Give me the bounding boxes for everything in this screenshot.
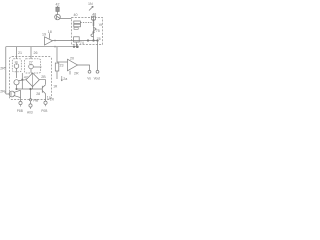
svg-text:A03: A03 [27,111,33,115]
svg-text:18: 18 [48,30,52,34]
svg-text:26: 26 [34,51,38,55]
svg-text:21: 21 [18,51,22,55]
svg-text:75: 75 [96,29,100,33]
svg-text:19: 19 [42,33,46,37]
svg-text:1N: 1N [88,2,93,6]
svg-text:74: 74 [80,41,84,45]
svg-text:2R: 2R [0,90,5,94]
svg-text:40: 40 [74,13,78,17]
svg-text:27: 27 [29,61,33,65]
svg-text:28: 28 [36,92,40,96]
svg-text:2B: 2B [41,75,46,79]
svg-text:1R: 1R [50,98,55,102]
svg-text:2a: 2a [63,77,67,81]
svg-text:19: 19 [14,60,18,64]
svg-text:42: 42 [56,3,60,7]
svg-text:Vt: Vt [99,23,102,27]
svg-text:48: 48 [92,13,96,17]
svg-text:P8B: P8B [17,109,23,113]
svg-text:20: 20 [70,56,74,60]
svg-text:P0B: P0B [41,109,47,113]
svg-text:Vo: Vo [87,76,91,80]
svg-text:Vout: Vout [94,76,100,80]
svg-text:1R: 1R [53,85,58,89]
svg-text:23: 23 [60,63,64,67]
svg-text:76: 76 [97,37,101,41]
svg-text:47: 47 [24,75,28,79]
svg-text:2R: 2R [0,66,5,70]
svg-text:HB: HB [33,98,39,102]
svg-text:2R: 2R [74,71,79,75]
